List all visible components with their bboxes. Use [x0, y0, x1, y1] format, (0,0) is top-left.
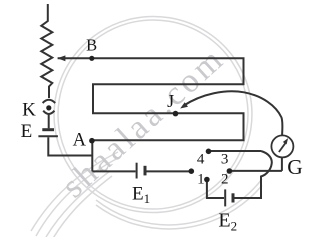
svg-text:B: B [86, 36, 97, 55]
svg-text:K: K [22, 100, 36, 121]
svg-text:E2: E2 [218, 209, 237, 233]
svg-text:2: 2 [221, 172, 229, 188]
svg-text:3: 3 [221, 151, 229, 167]
svg-text:E: E [21, 121, 33, 142]
svg-text:A: A [73, 131, 87, 151]
svg-text:E1: E1 [132, 184, 150, 207]
svg-text:1: 1 [197, 172, 205, 188]
svg-text:4: 4 [197, 151, 205, 167]
svg-text:G: G [287, 155, 303, 179]
svg-text:J: J [167, 91, 174, 111]
